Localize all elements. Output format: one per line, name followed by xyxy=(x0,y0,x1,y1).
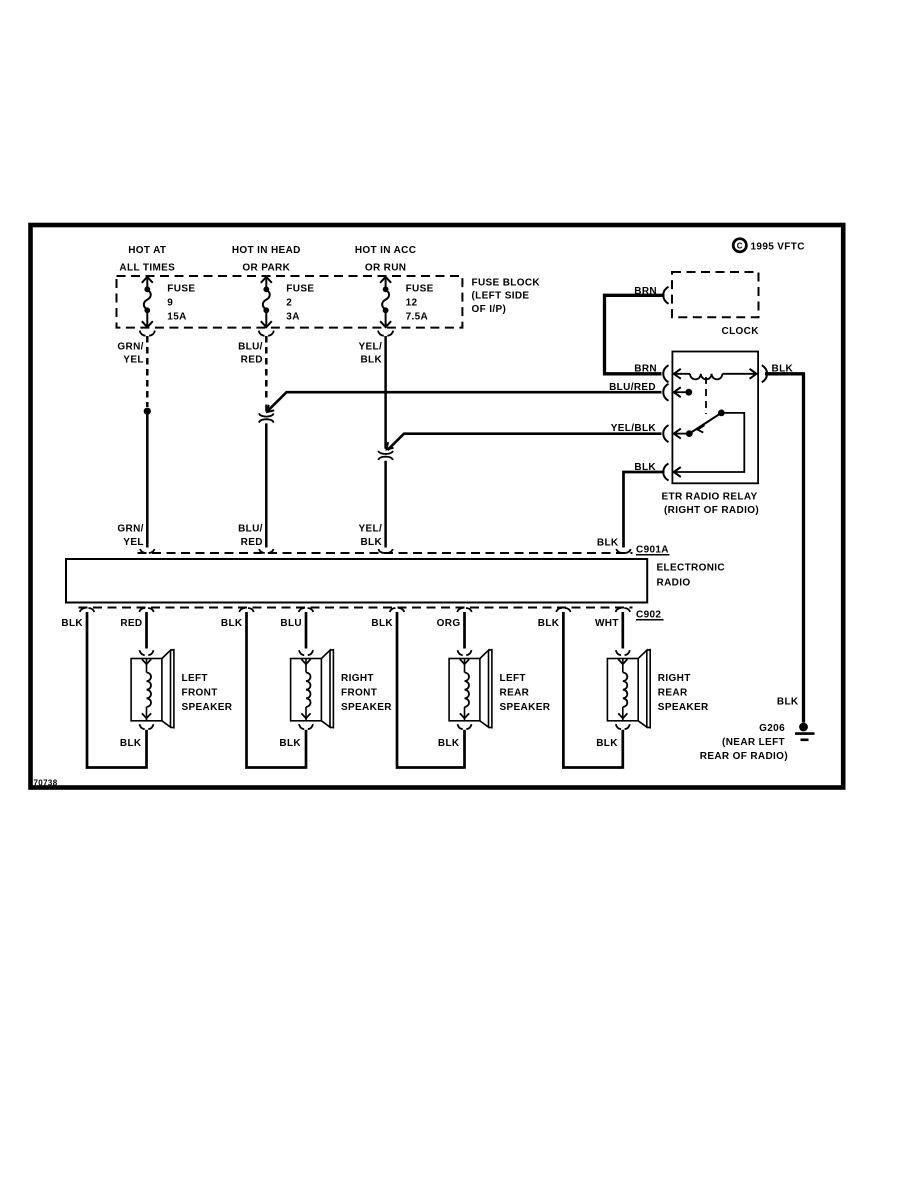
relay pin 5 arrowhead (BLK out) xyxy=(750,369,757,379)
wire BLU/RED stub above in-line connector xyxy=(265,405,267,412)
connector feet BLK return wire LS2 at C902 xyxy=(239,608,253,612)
svg-text:BRN: BRN xyxy=(634,364,657,375)
svg-text:OR RUN: OR RUN xyxy=(365,262,407,273)
svg-text:SPEAKER: SPEAKER xyxy=(341,702,392,713)
wire BLK return LS1 xyxy=(87,612,146,768)
svg-text:ALL TIMES: ALL TIMES xyxy=(119,262,175,273)
svg-text:BLK: BLK xyxy=(597,537,619,548)
svg-text:HOT IN ACC: HOT IN ACC xyxy=(355,245,416,256)
connector at speaker LS1 - terminal xyxy=(140,724,154,729)
svg-text:HOT AT: HOT AT xyxy=(128,245,166,256)
connector feet ORG wire at C902 xyxy=(457,608,471,612)
svg-text:BLK: BLK xyxy=(360,355,382,366)
ground G206 label xyxy=(700,723,788,762)
svg-text:YEL: YEL xyxy=(123,537,144,548)
connector feet BLK return wire LS3 at C902 xyxy=(390,608,404,612)
wire GRN/YEL solid segment xyxy=(146,414,149,548)
branch wire to relay BLU/RED (diagonal + horizontal) xyxy=(268,392,661,410)
electronic radio box U2 xyxy=(66,559,647,603)
svg-text:FUSE: FUSE xyxy=(286,283,314,294)
wire ORG to speaker LS3 xyxy=(463,612,466,649)
wire GRN/YEL dashed segment xyxy=(146,336,149,407)
connector at speaker LS3 - terminal xyxy=(458,724,472,729)
wire BRN from clock to relay xyxy=(605,295,665,374)
fuse F12 value label 12 7.5A xyxy=(406,283,434,322)
wire label YEL/BLK (lower) xyxy=(358,523,382,548)
relay switch SW1 xyxy=(686,410,725,438)
svg-text:12: 12 xyxy=(406,297,418,308)
connector at speaker LS3 + terminal xyxy=(458,650,472,655)
svg-text:RIGHT: RIGHT xyxy=(658,673,691,684)
fuse F2 symbol xyxy=(261,277,272,327)
svg-text:BLU/: BLU/ xyxy=(238,342,263,353)
ETR radio relay box U1 xyxy=(672,352,758,484)
svg-text:SPEAKER: SPEAKER xyxy=(500,702,551,713)
wire YEL/BLK solid lower segment xyxy=(384,461,387,548)
fuse block label xyxy=(472,278,541,315)
svg-text:ETR RADIO RELAY: ETR RADIO RELAY xyxy=(661,491,757,502)
svg-text:BLK: BLK xyxy=(438,738,460,749)
svg-text:C902: C902 xyxy=(636,609,661,620)
svg-text:G206: G206 xyxy=(759,723,785,734)
in-line connector on YEL/BLK wire xyxy=(378,451,393,460)
wire BLK from speaker LS4 xyxy=(621,730,624,769)
connector feet WHT wire at C902 xyxy=(616,608,630,612)
connector feet YEL/BLK at C901A xyxy=(378,549,392,553)
svg-text:RED: RED xyxy=(241,355,263,366)
svg-text:LEFT: LEFT xyxy=(500,673,526,684)
svg-text:BLK: BLK xyxy=(360,537,382,548)
connector at speaker LS4 + terminal xyxy=(616,650,630,655)
wire BLU/RED dashed segment xyxy=(265,336,268,398)
relay coil L1 xyxy=(674,374,756,380)
wire YEL/BLK solid upper segment xyxy=(384,336,387,449)
connector label C901A xyxy=(636,544,670,555)
connector feet BLK return wire LS4 at C902 xyxy=(556,608,570,612)
connector at relay pin 5 xyxy=(762,365,767,382)
connector at clock pin xyxy=(663,287,668,304)
svg-text:1995 VFTC: 1995 VFTC xyxy=(751,242,805,253)
relay coil core dashed link xyxy=(705,377,707,414)
border frame xyxy=(31,225,844,788)
svg-text:RADIO: RADIO xyxy=(657,577,691,588)
wire BLK from speaker LS2 xyxy=(305,730,308,769)
svg-text:BLK: BLK xyxy=(777,696,799,707)
svg-text:BLK: BLK xyxy=(538,618,560,629)
connector at relay pin 3 (YEL/BLK) xyxy=(663,425,668,442)
relay pin 4 arrowhead xyxy=(674,467,681,477)
svg-text:ELECTRONIC: ELECTRONIC xyxy=(657,562,726,573)
svg-text:BLK: BLK xyxy=(596,738,618,749)
branch wire to relay YEL/BLK (diagonal + horizontal) xyxy=(388,434,662,450)
svg-text:9: 9 xyxy=(167,297,173,308)
svg-text:C901A: C901A xyxy=(636,544,669,555)
svg-text:BLK: BLK xyxy=(279,738,301,749)
connector feet BLK at C901A xyxy=(616,549,630,553)
svg-text:OF I/P): OF I/P) xyxy=(472,304,507,315)
svg-text:REAR: REAR xyxy=(658,688,688,699)
in-line connector on BLU/RED wire xyxy=(259,413,274,422)
svg-text:FRONT: FRONT xyxy=(182,688,218,699)
svg-text:CLOCK: CLOCK xyxy=(722,326,760,337)
svg-text:LEFT: LEFT xyxy=(182,673,208,684)
fuse F9 value label 9 15A xyxy=(167,283,195,322)
wire label GRN/YEL (lower) xyxy=(117,523,143,548)
speaker LS1 symbol xyxy=(131,650,174,728)
connector at relay pin 2 (BLU/RED) xyxy=(663,384,668,401)
svg-text:7.5A: 7.5A xyxy=(406,311,429,322)
svg-text:YEL: YEL xyxy=(123,355,144,366)
connector line C901A (dashed) xyxy=(138,552,633,554)
connector at relay pin 4 (BLK) xyxy=(663,464,668,481)
connector label C902 xyxy=(636,609,664,620)
svg-text:BLK: BLK xyxy=(221,618,243,629)
svg-text:FUSE: FUSE xyxy=(167,283,195,294)
svg-text:BLK: BLK xyxy=(120,738,142,749)
node HOT IN HEAD OR PARK label xyxy=(232,245,301,273)
svg-text:REAR: REAR xyxy=(500,688,530,699)
svg-text:15A: 15A xyxy=(167,311,186,322)
wire BLU to speaker LS2 xyxy=(305,612,308,649)
connector feet BLU/RED at C901A xyxy=(259,549,273,553)
relay pin 2 arrowhead and contact xyxy=(674,387,692,397)
svg-text:FUSE BLOCK: FUSE BLOCK xyxy=(472,278,541,289)
clock box (dashed) xyxy=(672,272,759,317)
speaker LS3 name label xyxy=(500,673,551,713)
relay name label xyxy=(661,491,759,516)
node HOT AT ALL TIMES label xyxy=(119,245,175,273)
svg-text:BLU/RED: BLU/RED xyxy=(609,382,656,393)
node HOT IN ACC OR RUN label xyxy=(355,245,416,273)
svg-text:ORG: ORG xyxy=(437,618,461,629)
speaker LS4 name label xyxy=(658,673,709,713)
connector at speaker LS2 + terminal xyxy=(299,650,313,655)
connector at speaker LS1 + terminal xyxy=(140,650,154,655)
speaker LS2 name label xyxy=(341,673,392,713)
relay pin 1 arrowhead xyxy=(674,369,681,379)
connector at speaker LS2 - terminal xyxy=(299,724,313,729)
svg-text:70738: 70738 xyxy=(34,779,58,788)
wire BLK from speaker LS3 xyxy=(463,730,466,769)
connector feet GRN/YEL at C901A xyxy=(140,549,154,553)
radio name label xyxy=(657,562,726,588)
fuse block box (dashed) xyxy=(117,276,463,328)
svg-text:BLK: BLK xyxy=(371,618,393,629)
relay pin 3 arrowhead xyxy=(674,429,686,439)
splice junction dot on GRN/YEL wire xyxy=(144,408,151,415)
wire BLK from relay pin 5 to ground G206 xyxy=(765,374,804,723)
svg-text:(RIGHT OF RADIO): (RIGHT OF RADIO) xyxy=(664,505,759,516)
wire WHT to speaker LS4 xyxy=(621,612,624,649)
svg-text:FUSE: FUSE xyxy=(406,283,434,294)
ground G206 symbol xyxy=(795,723,815,740)
copyright mark 1995 VFTC xyxy=(733,239,805,253)
arrowhead on YEL/BLK branch xyxy=(387,442,394,449)
relay internal wire from switch to pin 4 xyxy=(674,413,745,472)
connector feet BLU wire at C902 xyxy=(299,608,313,612)
svg-text:RED: RED xyxy=(241,537,263,548)
svg-text:(LEFT SIDE: (LEFT SIDE xyxy=(472,291,530,302)
speaker LS2 symbol xyxy=(291,650,334,728)
svg-text:SPEAKER: SPEAKER xyxy=(658,702,709,713)
wire label GRN/YEL (upper) xyxy=(117,342,143,366)
wire label BLU/RED (lower) xyxy=(238,523,263,548)
svg-text:REAR OF RADIO): REAR OF RADIO) xyxy=(700,751,788,762)
arrowhead on BLU/RED branch xyxy=(267,405,274,412)
svg-text:YEL/: YEL/ xyxy=(358,342,382,353)
svg-text:(NEAR LEFT: (NEAR LEFT xyxy=(722,737,785,748)
wire label YEL/BLK (upper) xyxy=(358,342,382,366)
svg-text:YEL/: YEL/ xyxy=(358,523,382,534)
svg-text:WHT: WHT xyxy=(595,618,619,629)
wire BLK from speaker LS1 xyxy=(145,730,148,769)
fuse F9 symbol xyxy=(142,277,153,327)
svg-text:GRN/: GRN/ xyxy=(117,523,143,534)
svg-text:BLU: BLU xyxy=(280,618,302,629)
connector feet BLK return wire LS1 at C902 xyxy=(80,608,94,612)
wire label BLU/RED (upper) xyxy=(238,342,263,366)
connector below fuse F2 xyxy=(259,331,274,336)
svg-text:C: C xyxy=(737,242,743,251)
connector at speaker LS4 - terminal xyxy=(616,724,630,729)
svg-text:SPEAKER: SPEAKER xyxy=(182,702,233,713)
svg-text:2: 2 xyxy=(286,297,292,308)
svg-text:HOT IN HEAD: HOT IN HEAD xyxy=(232,245,301,256)
speaker LS3 symbol xyxy=(449,650,492,728)
wire BLK return LS2 xyxy=(247,612,306,768)
svg-text:BLU/: BLU/ xyxy=(238,523,263,534)
wire BLU/RED solid segment xyxy=(265,423,268,547)
wire BLK return LS3 xyxy=(397,612,464,768)
fuse F12 symbol xyxy=(380,277,391,327)
connector at relay pin 1 (BRN) xyxy=(663,365,668,382)
wire BLK from relay pin 4 to radio C901A xyxy=(624,472,665,548)
fuse F2 value label 2 3A xyxy=(286,283,314,322)
svg-text:FRONT: FRONT xyxy=(341,688,377,699)
svg-text:BLK: BLK xyxy=(61,618,83,629)
speaker LS1 name label xyxy=(182,673,233,713)
svg-text:OR PARK: OR PARK xyxy=(242,262,290,273)
wire RED to speaker LS1 xyxy=(145,612,148,649)
svg-text:YEL/BLK: YEL/BLK xyxy=(611,423,657,434)
connector line C902 (dashed) xyxy=(79,607,633,609)
wire BLK return LS4 xyxy=(563,612,621,768)
connector below fuse F9 xyxy=(140,331,155,336)
speaker LS4 symbol xyxy=(607,650,650,728)
svg-text:RIGHT: RIGHT xyxy=(341,673,374,684)
svg-text:RED: RED xyxy=(120,618,142,629)
connector below fuse F12 xyxy=(378,331,393,336)
svg-text:3A: 3A xyxy=(286,311,299,322)
connector feet RED wire at C902 xyxy=(139,608,153,612)
svg-text:GRN/: GRN/ xyxy=(117,342,143,353)
